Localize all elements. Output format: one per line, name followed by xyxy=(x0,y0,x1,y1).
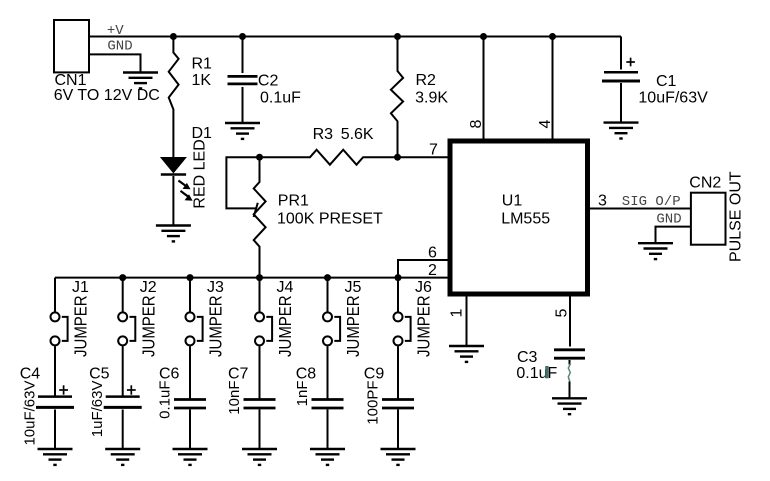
svg-text:JUMPER: JUMPER xyxy=(344,295,363,357)
jumper J2 xyxy=(118,278,135,396)
svg-text:C1: C1 xyxy=(656,73,677,90)
node rail-pin8 xyxy=(480,33,487,40)
connector CN1 xyxy=(54,20,89,72)
node bus-J3 xyxy=(187,274,194,281)
capacitor C3 xyxy=(554,350,585,399)
svg-text:C6: C6 xyxy=(159,365,180,382)
jumper J3 xyxy=(186,278,203,399)
capacitor C8 xyxy=(312,400,344,450)
svg-text:J1: J1 xyxy=(72,279,89,296)
svg-text:R2: R2 xyxy=(416,72,437,89)
ground under CN1 xyxy=(123,73,158,89)
plus sign C4 xyxy=(59,385,68,394)
wire jumper bus xyxy=(55,277,448,279)
node bus-J6-pin2 xyxy=(395,274,402,281)
ground under C4 xyxy=(38,449,73,465)
wire CN2 gnd stub xyxy=(656,227,691,244)
wire +V rail xyxy=(89,36,621,38)
svg-text:U1: U1 xyxy=(502,193,523,210)
svg-text:RED LED: RED LED xyxy=(192,139,209,208)
svg-text:10uF/63V: 10uF/63V xyxy=(638,90,708,107)
capacitor C2 xyxy=(228,37,258,124)
svg-text:6V TO 12V DC: 6V TO 12V DC xyxy=(54,87,160,104)
svg-text:0.1uF: 0.1uF xyxy=(260,90,301,107)
ground under C9 xyxy=(381,449,416,465)
jumper J1 xyxy=(51,278,68,396)
svg-text:7: 7 xyxy=(429,142,438,159)
ground under pin 1 xyxy=(449,346,484,362)
capacitor C1 xyxy=(602,37,640,123)
svg-text:SIG O/P: SIG O/P xyxy=(622,194,681,210)
LED D1 light arrows xyxy=(178,181,192,201)
plus sign C5 xyxy=(127,385,136,394)
capacitor C9 xyxy=(382,400,414,450)
svg-text:100PF: 100PF xyxy=(365,381,382,425)
svg-text:0.1uF: 0.1uF xyxy=(516,365,557,382)
ground under CN2 xyxy=(638,243,673,259)
svg-text:C3: C3 xyxy=(517,349,538,366)
svg-text:0.1uF: 0.1uF xyxy=(157,381,174,419)
svg-text:R1: R1 xyxy=(192,56,213,73)
svg-text:C7: C7 xyxy=(228,365,249,382)
svg-text:4: 4 xyxy=(537,120,554,129)
svg-text:100K PRESET: 100K PRESET xyxy=(277,211,383,228)
node rail-pin4 xyxy=(549,33,556,40)
preset PR1 body xyxy=(254,157,266,277)
svg-text:LM555: LM555 xyxy=(501,211,550,228)
svg-text:JUMPER: JUMPER xyxy=(207,295,226,357)
pin 7 wire xyxy=(398,156,448,158)
ground under LED xyxy=(156,226,191,242)
node bus-J4-PR1 xyxy=(256,274,263,281)
svg-text:J4: J4 xyxy=(277,279,294,296)
svg-text:C9: C9 xyxy=(364,365,385,382)
svg-text:10uF/63V: 10uF/63V xyxy=(22,381,39,446)
svg-text:GND: GND xyxy=(107,39,132,55)
ground under C1 xyxy=(604,123,639,139)
svg-text:1: 1 xyxy=(449,309,466,318)
capacitor C5 xyxy=(104,397,142,449)
svg-text:PR1: PR1 xyxy=(278,193,309,210)
pin 3 wire xyxy=(588,208,691,210)
jumper J5 xyxy=(323,278,340,399)
pin 1 wire xyxy=(466,294,468,346)
node bus-J5 xyxy=(324,274,331,281)
resistor R3 xyxy=(260,150,398,165)
svg-text:JUMPER: JUMPER xyxy=(139,295,158,357)
svg-text:8: 8 xyxy=(468,120,485,129)
LED D1 xyxy=(160,157,187,226)
svg-text:6: 6 xyxy=(428,244,437,261)
IC U1 LM555 xyxy=(450,141,588,294)
svg-text:C2: C2 xyxy=(258,72,279,89)
svg-text:JUMPER: JUMPER xyxy=(276,295,295,357)
pin 4 wire xyxy=(552,37,554,139)
svg-text:C4: C4 xyxy=(20,365,41,382)
svg-text:1nF: 1nF xyxy=(294,381,311,407)
pin 8 wire xyxy=(483,37,485,139)
ground under C7 xyxy=(242,449,277,465)
ground under C6 xyxy=(173,449,208,465)
preset PR1 wiper xyxy=(226,157,259,217)
connector CN2 xyxy=(691,193,726,245)
svg-text:JUMPER: JUMPER xyxy=(72,295,91,357)
svg-text:J5: J5 xyxy=(345,279,362,296)
jumper J6 xyxy=(394,278,411,399)
capacitor C6 xyxy=(174,400,206,450)
resistor R2 xyxy=(391,37,403,158)
svg-text:PULSE OUT: PULSE OUT xyxy=(728,171,745,262)
svg-text:3: 3 xyxy=(598,193,607,210)
svg-text:J2: J2 xyxy=(140,279,157,296)
pin 5 wire xyxy=(569,294,571,347)
pin 6 wire xyxy=(398,260,448,278)
node bus-J2 xyxy=(119,274,126,281)
node rail-C2 xyxy=(239,33,246,40)
svg-text:GND: GND xyxy=(656,211,681,227)
ground under C8 xyxy=(310,449,345,465)
text cursor artifact xyxy=(545,366,548,378)
svg-text:1K: 1K xyxy=(192,72,212,89)
svg-text:5: 5 xyxy=(554,309,571,318)
wire GND stub xyxy=(89,54,141,72)
svg-text:C5: C5 xyxy=(89,365,110,382)
ground under C5 xyxy=(105,449,140,465)
ground under C3 xyxy=(552,398,587,414)
artifact on wire xyxy=(568,364,570,382)
svg-text:10nF: 10nF xyxy=(226,381,243,415)
svg-text:5.6K: 5.6K xyxy=(341,126,374,143)
svg-text:3.9K: 3.9K xyxy=(415,89,448,106)
svg-text:C8: C8 xyxy=(296,365,317,382)
capacitor C4 xyxy=(36,397,74,449)
plus sign C1 xyxy=(626,58,635,67)
node rail-R1 xyxy=(170,33,177,40)
resistor R1 xyxy=(169,37,179,158)
svg-text:J3: J3 xyxy=(207,279,224,296)
jumper J4 xyxy=(255,278,272,399)
svg-text:J6: J6 xyxy=(415,279,432,296)
node R2-R3-pin7 xyxy=(394,154,401,161)
svg-text:1uF/63V: 1uF/63V xyxy=(89,381,106,438)
svg-text:JUMPER: JUMPER xyxy=(415,295,434,357)
ground under C2 xyxy=(225,123,260,139)
svg-text:CN2: CN2 xyxy=(689,175,721,192)
node rail-R2 xyxy=(394,33,401,40)
svg-text:R3: R3 xyxy=(313,126,334,143)
capacitor C7 xyxy=(244,400,276,450)
node R3-PR1 xyxy=(256,154,263,161)
